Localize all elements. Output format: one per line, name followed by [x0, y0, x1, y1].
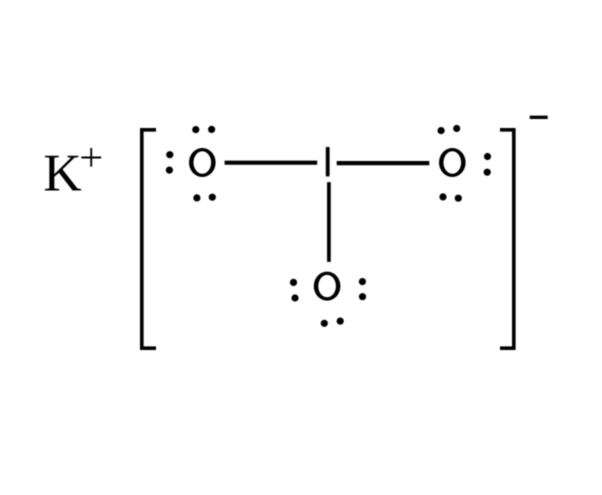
svg-text:K: K [43, 144, 81, 202]
